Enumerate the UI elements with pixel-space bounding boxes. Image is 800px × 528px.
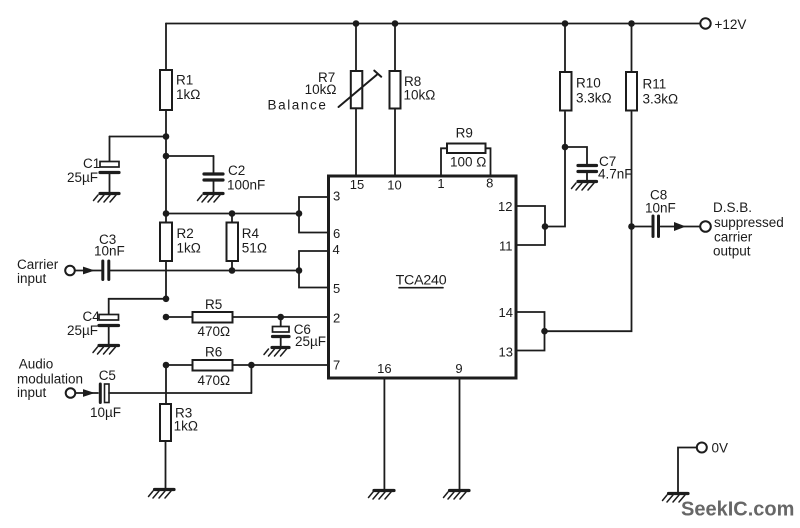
pin 3 number <box>333 189 340 204</box>
node junction C6 tap <box>277 314 284 321</box>
wire R9 to pin 8 <box>486 148 491 176</box>
pin 14 number <box>499 305 513 320</box>
wire pin 9 to ground <box>459 378 461 489</box>
svg-text:C4: C4 <box>83 309 101 324</box>
svg-text:R4: R4 <box>242 226 260 241</box>
svg-text:51Ω: 51Ω <box>242 241 267 256</box>
label R5 value <box>198 297 231 339</box>
resistor R7 variable Balance <box>351 71 363 108</box>
svg-text:0V: 0V <box>712 441 729 456</box>
wire R7 branch upper <box>355 24 357 72</box>
label TCA240 <box>396 273 447 289</box>
label 0V <box>712 441 729 456</box>
capacitor C3 <box>103 261 109 280</box>
svg-text:7: 7 <box>333 358 340 373</box>
resistor R6 <box>193 360 233 371</box>
node junction bracket1413 <box>541 328 548 335</box>
wire R4 lower lead <box>231 261 233 271</box>
wire C4 horizontal <box>109 298 166 300</box>
terminal +12V <box>700 18 710 28</box>
ground C2 <box>198 194 224 203</box>
capacitor C7 <box>578 166 597 181</box>
wire pin 1 to R9 <box>441 148 447 176</box>
pin 11 number <box>499 239 513 254</box>
svg-text:470Ω: 470Ω <box>198 324 231 339</box>
wire R3 lower lead <box>165 441 167 488</box>
pin 15 number <box>350 177 364 192</box>
label R1 value <box>176 73 200 103</box>
wire C8 output line <box>632 226 652 228</box>
node junction audio riser <box>248 362 255 369</box>
pin 1 number <box>437 176 444 191</box>
label C4 value <box>67 309 100 338</box>
resistor R11 <box>626 72 637 111</box>
pin 5 number <box>333 281 340 296</box>
svg-text:C1: C1 <box>83 156 100 171</box>
label C8 value <box>645 188 676 216</box>
terminal DSB output <box>700 221 711 232</box>
svg-text:input: input <box>17 385 47 400</box>
svg-text:C5: C5 <box>99 368 116 383</box>
svg-text:R11: R11 <box>643 77 667 92</box>
label C1 value <box>67 156 100 185</box>
svg-text:4: 4 <box>333 242 340 257</box>
wire audio input to C5 <box>75 392 98 394</box>
svg-text:1kΩ: 1kΩ <box>177 241 201 256</box>
svg-text:Audio: Audio <box>19 357 54 372</box>
wire R10 lower to pins 12,11 <box>545 112 565 227</box>
svg-text:R2: R2 <box>177 226 194 241</box>
svg-text:14: 14 <box>499 305 513 320</box>
svg-text:16: 16 <box>377 361 391 376</box>
label C2 value <box>227 163 265 193</box>
label C6 value <box>294 322 326 349</box>
pin 8 number <box>486 176 493 191</box>
node junction R10/top rail <box>562 20 569 27</box>
arrow carrier input <box>83 267 95 275</box>
svg-text:1: 1 <box>437 176 444 191</box>
node junction R8/top rail <box>392 20 399 27</box>
svg-text:470Ω: 470Ω <box>198 373 231 388</box>
label R11 value <box>643 77 679 107</box>
wire R8 to pin 10 <box>394 109 396 177</box>
resistor R4 <box>227 223 239 262</box>
wire R10 branch upper <box>564 24 566 73</box>
wire R7 to pin 15 <box>355 108 357 176</box>
ground C7 <box>572 182 597 191</box>
resistor R8 <box>390 71 401 109</box>
terminal audio input <box>66 388 76 398</box>
pin 9 number <box>455 361 462 376</box>
svg-text:10µF: 10µF <box>90 405 121 420</box>
wire R4 upper lead <box>231 214 233 223</box>
svg-text:5: 5 <box>333 281 340 296</box>
label Carrier input <box>17 257 59 286</box>
svg-text:11: 11 <box>499 239 513 254</box>
capacitor C6 <box>273 317 290 346</box>
wire bracket pins 14-13 <box>516 312 545 351</box>
label R9 value <box>450 126 486 170</box>
capacitor C5 <box>100 384 109 403</box>
capacitor C8 <box>653 216 659 237</box>
node junction C4 tap <box>163 296 170 303</box>
svg-text:D.S.B.: D.S.B. <box>713 200 752 215</box>
ground pin 9 <box>444 491 470 500</box>
node junction C7 tap <box>562 144 569 151</box>
label R2 value <box>177 226 201 256</box>
svg-text:25µF: 25µF <box>67 323 98 338</box>
svg-text:R6: R6 <box>205 345 222 360</box>
wire C1 horizontal <box>110 136 167 138</box>
svg-text:10nF: 10nF <box>645 201 676 216</box>
watermark SeekIC.com <box>681 499 794 521</box>
pin 4 number <box>333 242 340 257</box>
svg-text:R9: R9 <box>456 126 473 141</box>
wire +12V top rail <box>166 23 700 25</box>
svg-text:3: 3 <box>333 189 340 204</box>
pin 6 number <box>333 226 340 241</box>
svg-text:25µF: 25µF <box>67 170 98 185</box>
label +12V <box>715 17 747 32</box>
svg-text:R5: R5 <box>205 297 222 312</box>
wire carrier input to C3 <box>75 270 101 272</box>
capacitor C2 <box>204 156 223 192</box>
svg-text:input: input <box>17 271 47 286</box>
svg-text:4.7nF: 4.7nF <box>598 167 633 182</box>
resistor R3 <box>160 404 171 441</box>
wire bias line to pins 3,6 <box>166 213 299 215</box>
resistor R5 <box>193 312 233 323</box>
svg-text:1kΩ: 1kΩ <box>174 419 198 434</box>
ground C4 <box>93 346 119 355</box>
svg-text:SeekIC.com: SeekIC.com <box>681 499 794 521</box>
wire audio riser <box>250 365 252 393</box>
svg-text:R1: R1 <box>176 73 193 88</box>
wire R1 branch upper <box>165 24 167 71</box>
label C5 value <box>90 368 121 420</box>
wire C8 to output terminal <box>661 226 701 228</box>
svg-text:suppressed: suppressed <box>714 215 784 230</box>
label C3 value <box>94 232 125 259</box>
svg-text:13: 13 <box>499 345 513 360</box>
svg-text:R10: R10 <box>576 76 601 91</box>
wire 0V to ground <box>678 448 697 493</box>
ground C6 <box>264 348 289 357</box>
node junction bias/bracket36 <box>296 210 303 217</box>
svg-text:10: 10 <box>387 178 401 193</box>
resistor R9 <box>447 144 486 154</box>
svg-text:15: 15 <box>350 177 364 192</box>
node junction bracket1211 <box>542 223 549 230</box>
ground pin 16 <box>369 491 395 500</box>
wire audio line crossing R3 lead <box>109 392 251 394</box>
svg-text:TCA240: TCA240 <box>396 273 447 289</box>
resistor R2 <box>160 223 172 262</box>
svg-text:+12V: +12V <box>715 17 747 32</box>
pin 12 number <box>498 199 512 214</box>
pin 13 number <box>499 345 513 360</box>
pin 16 number <box>377 361 391 376</box>
svg-text:carrier: carrier <box>714 230 753 245</box>
svg-text:10kΩ: 10kΩ <box>404 88 436 103</box>
node junction bias/R4 <box>229 210 236 217</box>
node junction C2 tap <box>163 153 170 160</box>
arrow audio input <box>83 389 95 397</box>
node junction R7/top rail <box>353 20 360 27</box>
label R6 value <box>198 345 231 389</box>
wire bracket pins 3-6 <box>299 197 329 233</box>
wire bracket pins 4-5 <box>299 251 329 288</box>
svg-text:9: 9 <box>455 361 462 376</box>
svg-text:12: 12 <box>498 199 512 214</box>
terminal 0V <box>697 443 707 453</box>
svg-text:3.3kΩ: 3.3kΩ <box>576 91 612 106</box>
node junction R6 left <box>163 362 170 369</box>
svg-text:Carrier: Carrier <box>17 257 59 272</box>
svg-text:10kΩ: 10kΩ <box>305 82 337 97</box>
pin 7 number <box>333 358 340 373</box>
label Audio modulation input <box>17 357 83 400</box>
node junction C8 tap <box>628 223 635 230</box>
ground C1 <box>94 194 120 203</box>
svg-text:100 Ω: 100 Ω <box>450 155 486 170</box>
node junction bias/R2 <box>163 210 170 217</box>
arrow output <box>674 222 686 231</box>
wire R2 upper lead <box>165 214 167 223</box>
wire R11 branch upper <box>631 24 633 73</box>
wire bracket pins 12-11 <box>516 206 545 245</box>
wire R5 line to pin 2 <box>166 316 329 318</box>
svg-text:8: 8 <box>486 176 493 191</box>
label DSB suppressed carrier output <box>713 200 784 259</box>
node junction R4/carrier <box>229 267 236 274</box>
resistor R10 <box>560 72 572 111</box>
svg-text:1kΩ: 1kΩ <box>176 87 200 102</box>
wire R6 line to pin 7 <box>166 364 329 366</box>
capacitor C1 <box>100 137 119 193</box>
pin 10 number <box>387 178 401 193</box>
svg-text:25µF: 25µF <box>295 334 326 349</box>
svg-text:Balance: Balance <box>268 98 328 113</box>
wire C2 horizontal <box>166 155 214 157</box>
terminal carrier input <box>65 266 75 276</box>
svg-text:output: output <box>713 244 751 259</box>
wire R8 branch upper <box>394 24 396 72</box>
svg-text:10nF: 10nF <box>94 244 125 259</box>
svg-text:100nF: 100nF <box>227 178 265 193</box>
svg-text:6: 6 <box>333 226 340 241</box>
wire carrier line to pins 4,5 <box>111 270 300 272</box>
label R10 value <box>576 76 612 106</box>
capacitor C4 <box>99 299 119 344</box>
svg-text:3.3kΩ: 3.3kΩ <box>643 92 679 107</box>
wire pin 16 to ground <box>383 378 385 489</box>
op-amp U1 TCA240 IC body <box>329 176 517 378</box>
wire C7 branch <box>565 147 587 164</box>
node junction R5 left <box>163 314 170 321</box>
pin 2 number <box>333 311 340 326</box>
node junction R11/top rail <box>628 20 635 27</box>
node junction C1 tap <box>163 133 170 140</box>
svg-text:2: 2 <box>333 311 340 326</box>
label R8 value <box>404 74 436 103</box>
label C7 value <box>598 154 633 182</box>
arrow R7 wiper <box>339 71 382 107</box>
label R4 value <box>242 226 267 256</box>
label R7 value Balance <box>268 70 337 113</box>
svg-text:C2: C2 <box>228 163 245 178</box>
wire R2 lower lead crossing carrier line <box>165 261 167 299</box>
wire R1 lower to bias node <box>165 110 167 214</box>
ground 0V <box>663 494 689 503</box>
label R3 value <box>174 406 198 434</box>
ground R3 <box>149 490 175 499</box>
node junction carrier/bracket45 <box>296 267 303 274</box>
resistor R1 <box>160 70 172 110</box>
wire R3 upper lead crossing audio line <box>165 365 167 404</box>
wire R11 lower to pins 14,13 <box>545 112 632 331</box>
